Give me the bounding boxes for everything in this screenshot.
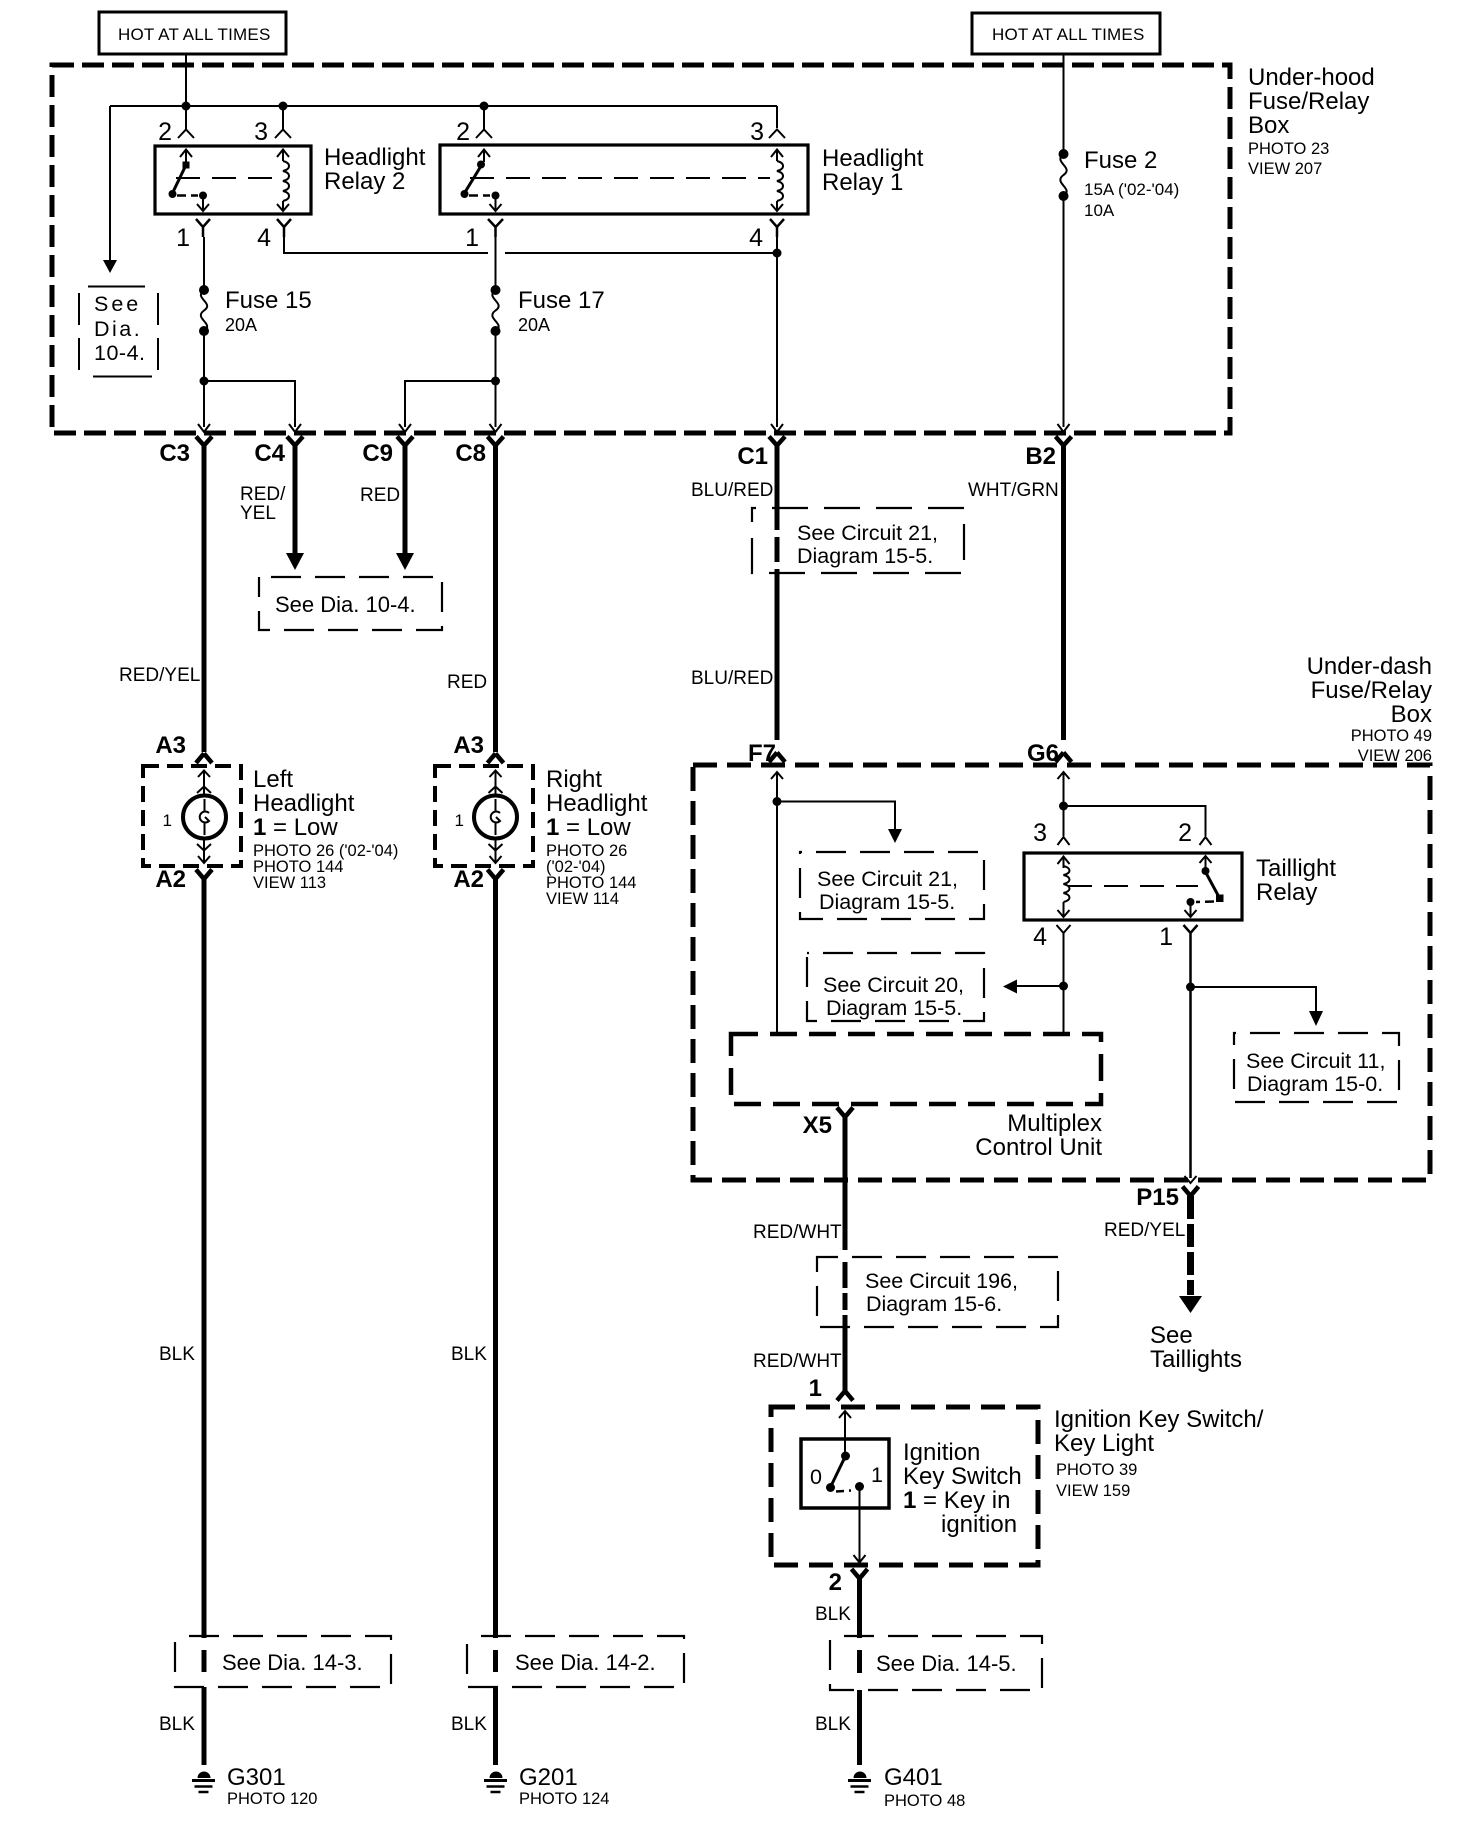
connector X5	[803, 1108, 853, 1140]
taillight relay box	[1024, 853, 1242, 920]
svg-text:15A ('02-'04): 15A ('02-'04)	[1084, 180, 1179, 199]
node junction dot at relay2 pin2	[182, 102, 191, 111]
left headlight bottom exit arrow	[197, 839, 211, 863]
node junction dot on pin4 wire	[1059, 982, 1068, 991]
svg-text:Diagram 15-6.: Diagram 15-6.	[866, 1292, 1002, 1316]
right headlight label	[546, 766, 648, 908]
svg-text:BLK: BLK	[815, 1714, 851, 1735]
node junction dot at relay1 pin2	[480, 102, 489, 111]
svg-text:Headlight: Headlight	[253, 790, 355, 817]
wire F7 down to multiplex control unit	[776, 772, 778, 1034]
connector A2 (left headlight)	[155, 866, 212, 893]
wire color label RED/WHT (upper)	[753, 1222, 842, 1243]
svg-text:10A: 10A	[1084, 201, 1115, 220]
svg-text:Under-hood: Under-hood	[1248, 64, 1375, 91]
svg-text:1 = Low: 1 = Low	[253, 814, 338, 841]
taillight relay pin 3 terminal	[1033, 819, 1069, 847]
ignition key switch dashed box	[771, 1407, 1038, 1565]
connector C1	[737, 424, 785, 470]
see taillights label	[1150, 1322, 1242, 1373]
svg-text:RED/WHT: RED/WHT	[753, 1222, 842, 1243]
wire C9 stub arrow down	[396, 446, 414, 571]
wire relay2 pin4 to relay1 pin4 (y=253 link)	[284, 237, 777, 253]
node junction dot on G6 wire	[1059, 802, 1068, 811]
power label HOT AT ALL TIMES (left)	[99, 12, 286, 54]
svg-text:Fuse 2: Fuse 2	[1084, 147, 1157, 174]
ignition key switch inner box	[801, 1439, 889, 1508]
ground G201	[484, 1772, 507, 1792]
connector C3	[159, 424, 212, 467]
svg-text:4: 4	[257, 224, 271, 252]
svg-text:20A: 20A	[225, 315, 257, 335]
svg-text:PHOTO 120: PHOTO 120	[227, 1790, 317, 1808]
wire G6 down to taillight relay pin 3	[1063, 772, 1065, 836]
svg-text:BLK: BLK	[159, 1344, 195, 1365]
under-hood fuse/relay box (dashed enclosure)	[52, 65, 1230, 433]
node junction dot at relay2 pin3	[279, 102, 288, 111]
wire C8 to right headlight A3	[493, 446, 498, 753]
relay1 internal dashed link	[470, 177, 770, 179]
reference box See Circuit 196, Diagram 15-6.	[817, 1257, 1058, 1327]
svg-text:Multiplex: Multiplex	[1007, 1110, 1102, 1137]
svg-text:4: 4	[1033, 923, 1047, 951]
svg-text:Diagram 15-5.: Diagram 15-5.	[797, 544, 933, 568]
connector C8	[455, 424, 503, 467]
svg-text:Under-dash: Under-dash	[1307, 653, 1432, 680]
svg-text:P15: P15	[1136, 1184, 1179, 1211]
svg-text:VIEW 113: VIEW 113	[253, 874, 326, 892]
wire pin1 down to P15	[1189, 940, 1192, 1178]
svg-text:G6: G6	[1027, 740, 1059, 767]
svg-text:3: 3	[1033, 819, 1047, 847]
left headlight label	[253, 766, 398, 892]
connector C9	[362, 424, 413, 467]
svg-text:2: 2	[456, 118, 470, 146]
svg-text:1: 1	[465, 224, 479, 252]
relay2 pin 2 terminal	[158, 106, 194, 146]
ground G401 label	[884, 1764, 965, 1810]
relay1 switch (pins 2-1)	[461, 150, 502, 212]
relay2 coil (pins 3-4)	[277, 150, 289, 212]
svg-text:Relay 2: Relay 2	[324, 168, 405, 195]
taillight relay switch (pins 2-1)	[1185, 856, 1224, 917]
svg-text:Diagram 15-0.: Diagram 15-0.	[1247, 1072, 1383, 1096]
wire bus at y=106 feeding relay pins	[110, 106, 777, 260]
wire C3 to left headlight A3	[202, 446, 207, 753]
reference box See Circuit 20, Diagram 15-5.	[807, 953, 984, 1021]
svg-text:Headlight: Headlight	[324, 144, 426, 171]
svg-text:VIEW 114: VIEW 114	[546, 890, 619, 908]
connector A3 (left headlight)	[155, 732, 212, 763]
fuse F2 value label	[1084, 147, 1179, 220]
svg-text:ignition: ignition	[941, 1511, 1017, 1538]
relay1 pin 2 terminal	[456, 106, 492, 146]
wire branch to See Circuit 20 arrow (left)	[1003, 980, 1064, 994]
svg-text:C1: C1	[737, 443, 768, 470]
relay2 pin 4 terminal	[257, 219, 291, 252]
ignition pin 1 entry arrow	[839, 1411, 851, 1452]
left headlight pin 1 entry arrow	[197, 771, 211, 796]
ground G201 label	[519, 1764, 609, 1808]
connector G6	[1027, 740, 1072, 779]
svg-text:RED/WHT: RED/WHT	[753, 1351, 842, 1372]
svg-text:See Circuit 20,: See Circuit 20,	[823, 973, 964, 997]
wire C4 stub arrow down	[286, 446, 304, 571]
reference box See Circuit 21, Diagram 15-5. (under-dash)	[800, 852, 984, 919]
wire C1 to F7 (BLU/RED)	[775, 446, 780, 741]
svg-text:Taillight: Taillight	[1256, 855, 1336, 882]
wire color label RED/YEL at C4	[240, 484, 286, 524]
svg-text:1: 1	[1159, 923, 1173, 951]
fuse F15 value label	[225, 287, 312, 335]
svg-text:G301: G301	[227, 1764, 286, 1791]
svg-text:C8: C8	[455, 440, 486, 467]
connector P15	[1136, 1176, 1198, 1211]
wire left headlight A2 to G301 (BLK)	[202, 879, 207, 1765]
svg-text:VIEW 206: VIEW 206	[1358, 747, 1432, 765]
wire color label BLK (right, upper)	[451, 1344, 487, 1365]
wire from left HOT feed down to bus	[185, 54, 187, 106]
connector C4	[254, 424, 303, 467]
svg-text:2: 2	[1178, 819, 1192, 847]
wire color label RED/WHT (lower)	[753, 1351, 842, 1372]
svg-text:BLK: BLK	[159, 1714, 195, 1735]
wire branch G6 to taillight relay pin 2	[1064, 806, 1206, 836]
svg-text:C3: C3	[159, 440, 190, 467]
under-hood fuse/relay box label	[1248, 64, 1375, 178]
reference box See Dia. 10-4. (left)	[79, 287, 158, 377]
svg-text:Dia.: Dia.	[94, 317, 142, 341]
svg-text:Key Switch: Key Switch	[903, 1463, 1022, 1490]
multiplex control unit label	[975, 1110, 1102, 1161]
arrow down to See Dia. 10-4. reference	[103, 260, 117, 273]
svg-text:Box: Box	[1391, 701, 1432, 728]
connector A2 (right headlight)	[453, 866, 503, 893]
svg-text:Diagram 15-5.: Diagram 15-5.	[819, 890, 955, 914]
svg-text:Left: Left	[253, 766, 293, 793]
wire branch F7 to See Circuit 21 arrow	[777, 802, 902, 844]
wire pin4 down to multiplex control unit	[1063, 940, 1065, 1034]
wire B2 to G6 (WHT/GRN)	[1061, 446, 1066, 741]
svg-text:See Circuit 11,: See Circuit 11,	[1246, 1049, 1385, 1073]
under-dash fuse/relay box label	[1307, 653, 1432, 765]
svg-text:RED/YEL: RED/YEL	[119, 665, 200, 686]
wire P15 dashed arrow to taillights (RED/YEL)	[1179, 1196, 1202, 1313]
right headlight pin 1 entry arrow	[489, 771, 503, 796]
wire pin 2 to G401 (BLK)	[857, 1579, 862, 1766]
wire contact 1 down to pin 2	[854, 1488, 866, 1563]
svg-text:4: 4	[749, 224, 763, 252]
svg-text:2: 2	[829, 1569, 842, 1596]
svg-text:Right: Right	[546, 766, 602, 793]
svg-text:VIEW 159: VIEW 159	[1056, 1482, 1130, 1500]
svg-text:Fuse 15: Fuse 15	[225, 287, 312, 314]
svg-text:A2: A2	[155, 866, 186, 893]
svg-text:BLK: BLK	[451, 1714, 487, 1735]
svg-text:0: 0	[810, 1465, 822, 1489]
svg-text:B2: B2	[1025, 443, 1056, 470]
svg-text:See: See	[1150, 1322, 1193, 1349]
connector F7	[748, 740, 785, 779]
taillight relay label	[1256, 855, 1336, 906]
ground G401	[848, 1772, 871, 1792]
fuse F15	[199, 237, 209, 427]
node junction dot on F7 wire	[773, 797, 782, 806]
relay1 pin 3 terminal	[750, 118, 785, 146]
svg-text:Key Light: Key Light	[1054, 1430, 1154, 1457]
ignition pin 2 label	[829, 1569, 842, 1596]
node junction dot below fuse 17	[491, 377, 500, 386]
node junction dot at relay1 pin4 / C1 feed	[773, 249, 782, 258]
wire color label BLK (ignition upper)	[815, 1604, 851, 1625]
connector B2	[1025, 424, 1071, 470]
svg-text:2: 2	[158, 118, 172, 146]
wire right headlight A2 to G201 (BLK)	[493, 879, 498, 1765]
svg-text:See Circuit 21,: See Circuit 21,	[817, 867, 958, 891]
svg-text:BLK: BLK	[815, 1604, 851, 1625]
multiplex control unit box (dashed)	[731, 1034, 1101, 1104]
headlight relay 1 box	[440, 145, 808, 214]
svg-text:Fuse/Relay: Fuse/Relay	[1311, 677, 1432, 704]
svg-text:VIEW 207: VIEW 207	[1248, 160, 1322, 178]
power label HOT AT ALL TIMES (right)	[972, 13, 1160, 54]
wire color label BLK (ignition lower)	[815, 1714, 851, 1735]
svg-text:20A: 20A	[518, 315, 550, 335]
svg-text:G201: G201	[519, 1764, 578, 1791]
fuse F2	[1059, 54, 1069, 427]
relay2 switch (pins 2-1)	[169, 150, 210, 212]
svg-text:PHOTO 39: PHOTO 39	[1056, 1461, 1137, 1479]
wire color label BLK (left, lower)	[159, 1714, 195, 1735]
ignition key switch label (outside)	[1054, 1406, 1264, 1500]
svg-text:1: 1	[163, 811, 172, 830]
relay1 coil (pins 3-4)	[771, 150, 783, 212]
left headlight dashed box	[143, 766, 241, 866]
wire color label RED/YEL (P15)	[1104, 1220, 1185, 1241]
fuse F17	[491, 237, 501, 427]
svg-text:YEL: YEL	[240, 503, 276, 524]
svg-text:3: 3	[750, 118, 764, 146]
ignition key switch contacts	[810, 1452, 883, 1493]
wire branch to See Circuit 11 arrow	[1191, 987, 1324, 1026]
svg-text:Headlight: Headlight	[546, 790, 648, 817]
wire branch to C9	[405, 381, 496, 427]
svg-text:HOT AT ALL TIMES: HOT AT ALL TIMES	[992, 25, 1144, 44]
taillight relay pin 1 terminal	[1159, 923, 1197, 951]
wire color label RED at C9	[360, 485, 400, 506]
svg-text:Taillights: Taillights	[1150, 1346, 1242, 1373]
connector A3 (right headlight)	[453, 732, 503, 763]
svg-text:F7: F7	[748, 740, 776, 767]
svg-text:1: 1	[871, 1463, 883, 1487]
svg-text:Relay: Relay	[1256, 879, 1317, 906]
node junction dot below fuse 15	[200, 377, 209, 386]
svg-text:X5: X5	[803, 1112, 832, 1139]
svg-text:1: 1	[455, 811, 464, 830]
svg-text:Fuse 17: Fuse 17	[518, 287, 605, 314]
ground G301	[192, 1772, 215, 1792]
headlight relay 1 label	[822, 145, 924, 196]
taillight relay pin 4 terminal	[1033, 923, 1070, 951]
svg-text:A2: A2	[453, 866, 484, 893]
svg-text:RED: RED	[360, 485, 400, 506]
headlight relay 2 label	[324, 144, 426, 195]
svg-text:Headlight: Headlight	[822, 145, 924, 172]
svg-text:Ignition: Ignition	[903, 1439, 980, 1466]
svg-text:Fuse/Relay: Fuse/Relay	[1248, 88, 1369, 115]
svg-text:RED: RED	[447, 672, 487, 693]
ignition pin 2 connector	[852, 1569, 868, 1579]
right headlight bottom exit arrow	[489, 839, 503, 863]
right headlight "1" pin label	[455, 811, 464, 830]
headlight relay 2 box	[155, 146, 311, 214]
svg-text:See Dia. 14-2.: See Dia. 14-2.	[515, 1650, 656, 1675]
relay2 pin 3 terminal	[254, 106, 291, 146]
svg-text:1: 1	[809, 1375, 822, 1402]
svg-text:Relay 1: Relay 1	[822, 169, 903, 196]
reference box See Dia. 14-3.	[175, 1636, 391, 1687]
under-dash fuse/relay box (dashed enclosure)	[693, 765, 1430, 1180]
svg-text:1 = Key in: 1 = Key in	[903, 1487, 1010, 1514]
ignition key switch label (inside)	[903, 1439, 1022, 1538]
svg-text:PHOTO 124: PHOTO 124	[519, 1790, 609, 1808]
wire color label BLU/RED at C1	[691, 480, 773, 501]
svg-text:RED/: RED/	[240, 484, 286, 505]
wire branch to C4	[204, 381, 295, 427]
reference box See Circuit 11, Diagram 15-0.	[1234, 1033, 1399, 1102]
reference box See Dia. 10-4. (middle)	[259, 577, 442, 630]
svg-text:See Circuit 196,: See Circuit 196,	[865, 1269, 1018, 1293]
wire X5 to ignition key switch (RED/WHT)	[843, 1117, 848, 1391]
svg-text:BLU/RED: BLU/RED	[691, 480, 773, 501]
svg-text:A3: A3	[155, 732, 186, 759]
wire color label BLU/RED (lower, C1 wire)	[691, 668, 773, 689]
svg-text:Ignition Key Switch/: Ignition Key Switch/	[1054, 1406, 1264, 1433]
svg-text:1: 1	[176, 224, 190, 252]
node junction dot on pin1 wire	[1186, 983, 1195, 992]
left headlight "1" pin label	[163, 811, 172, 830]
svg-text:PHOTO 23: PHOTO 23	[1248, 140, 1329, 158]
ground G301 label	[227, 1764, 317, 1808]
relay1 pin 4 terminal	[749, 219, 784, 252]
svg-text:G401: G401	[884, 1764, 943, 1791]
relay2 pin 1 terminal	[176, 219, 210, 252]
relay1 pin 1 terminal	[465, 219, 503, 252]
wire relay1 pin4 down to C1	[776, 237, 778, 427]
reference box See Circuit 21, Diagram 15-5. (on C1 wire)	[752, 508, 964, 573]
wire color label RED on C8 wire	[447, 672, 487, 693]
fuse F17 value label	[518, 287, 605, 335]
wire color label RED/YEL on C3 wire	[119, 665, 200, 686]
svg-text:3: 3	[254, 118, 268, 146]
svg-text:Box: Box	[1248, 112, 1289, 139]
svg-text:See Circuit 21,: See Circuit 21,	[797, 521, 938, 545]
svg-text:See Dia. 14-5.: See Dia. 14-5.	[876, 1651, 1017, 1676]
wire color label BLK (right, lower)	[451, 1714, 487, 1735]
svg-text:PHOTO 49: PHOTO 49	[1351, 727, 1432, 745]
svg-text:10-4.: 10-4.	[94, 341, 146, 365]
svg-text:See Dia. 10-4.: See Dia. 10-4.	[275, 592, 416, 617]
svg-text:BLK: BLK	[451, 1344, 487, 1365]
svg-text:A3: A3	[453, 732, 484, 759]
svg-text:BLU/RED: BLU/RED	[691, 668, 773, 689]
svg-text:RED/YEL: RED/YEL	[1104, 1220, 1185, 1241]
svg-text:C4: C4	[254, 440, 285, 467]
svg-text:C9: C9	[362, 440, 393, 467]
svg-text:PHOTO 48: PHOTO 48	[884, 1792, 965, 1810]
left headlight bulb	[183, 796, 226, 839]
ignition pin 1 label	[809, 1375, 822, 1402]
svg-text:WHT/GRN: WHT/GRN	[968, 480, 1059, 501]
svg-text:Diagram 15-5.: Diagram 15-5.	[826, 996, 962, 1020]
svg-text:HOT AT ALL TIMES: HOT AT ALL TIMES	[118, 25, 270, 44]
wire color label WHT/GRN at B2	[968, 480, 1059, 501]
relay2 internal dashed link	[176, 177, 277, 179]
ignition pin 1 connector	[837, 1391, 853, 1401]
taillight relay coil (pins 3-4)	[1058, 857, 1070, 918]
reference box See Dia. 14-5.	[830, 1636, 1042, 1690]
svg-text:1 = Low: 1 = Low	[546, 814, 631, 841]
svg-text:Control Unit: Control Unit	[975, 1134, 1102, 1161]
svg-text:See: See	[94, 292, 141, 316]
taillight relay internal dashed link	[1068, 885, 1198, 887]
svg-text:See Dia. 14-3.: See Dia. 14-3.	[222, 1650, 363, 1675]
right headlight dashed box	[435, 766, 533, 866]
right headlight bulb	[474, 796, 517, 839]
taillight relay pin 2 terminal	[1178, 819, 1211, 847]
reference box See Dia. 14-2.	[467, 1636, 684, 1687]
wire color label BLK (left, upper)	[159, 1344, 195, 1365]
